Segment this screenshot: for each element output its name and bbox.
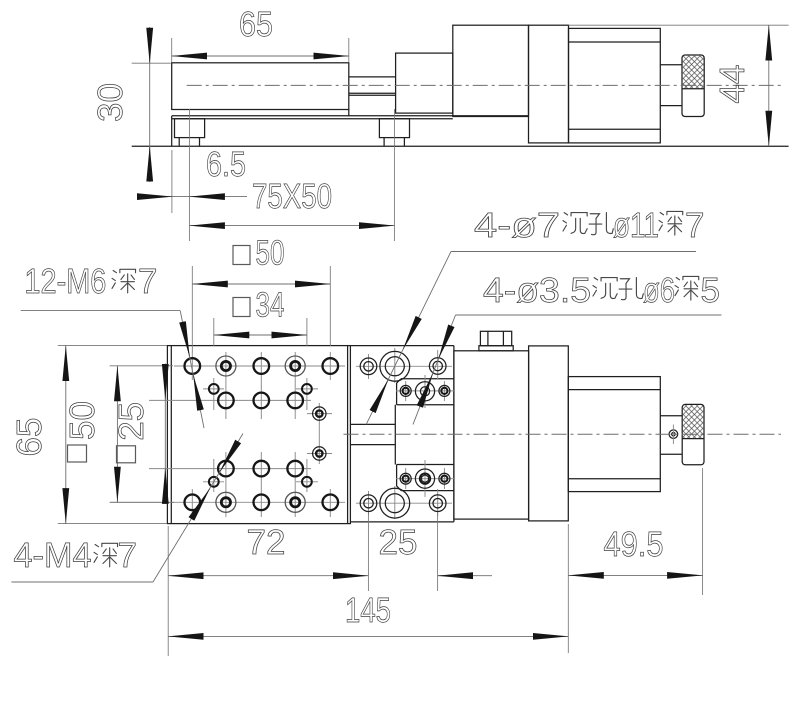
dim sq50 (plan) ext bottom <box>110 501 174 503</box>
label 12-M6 arrow a <box>183 322 190 356</box>
micrometer rod top line (side view) <box>349 76 396 78</box>
svg-text:7: 7 <box>118 536 137 575</box>
micrometer clamp (plan) <box>529 346 569 521</box>
lower screw strip <box>397 465 454 491</box>
dim 25 tail line <box>438 575 492 577</box>
dim sq50 (plan) text <box>63 401 102 462</box>
dim sq25 text <box>112 402 151 463</box>
svg-text:7: 7 <box>138 262 157 301</box>
counterbore o7/o11 hole upper <box>380 351 410 381</box>
svg-text:75X50: 75X50 <box>252 177 332 216</box>
dim sq34 ext right <box>306 318 308 346</box>
connector tab flange <box>479 346 513 351</box>
dim 145 line <box>168 635 568 637</box>
svg-text:44: 44 <box>713 65 752 104</box>
svg-text:50: 50 <box>256 234 285 273</box>
micrometer body lower line (plan) <box>568 478 660 480</box>
svg-text:65: 65 <box>239 5 273 44</box>
svg-text:25: 25 <box>379 523 418 562</box>
dim sq25 bottom arrow <box>164 468 166 503</box>
dim sq25 top arrow <box>164 365 166 400</box>
dim 6.5 extension a <box>171 150 173 213</box>
label 4-o7 underline <box>451 251 696 253</box>
label 4-o7 arrow b <box>373 380 388 411</box>
2x center screw holes <box>313 407 326 460</box>
micrometer spindle bottom (side view) <box>660 105 682 107</box>
dim sq34 line <box>214 334 307 336</box>
dim 6.5 left arrow <box>137 196 172 198</box>
dim 75X50 line <box>189 225 394 227</box>
knob knurl hatch (side view) <box>683 56 704 89</box>
dim sq34 ext left <box>213 318 215 346</box>
label 4-M4 arrow a <box>220 442 238 472</box>
dim 65 line <box>172 55 349 57</box>
bracket block (plan) <box>454 351 529 519</box>
counterbore o7/o11 hole lower <box>380 488 410 518</box>
micrometer spindle bottom (plan) <box>660 453 682 455</box>
label 12-M6 arrow b <box>193 375 200 409</box>
foot 2 body <box>379 119 409 138</box>
spindle shaft bottom (plan) <box>350 444 395 446</box>
dim 49.5 ext right <box>702 468 704 595</box>
micrometer spindle top (plan) <box>660 415 682 417</box>
svg-text:65: 65 <box>10 418 49 457</box>
svg-text:4-ø7: 4-ø7 <box>474 206 560 245</box>
knurled knob (side view) <box>682 55 704 117</box>
upper strip center hole <box>415 382 434 401</box>
dim 25 right arrow <box>438 575 473 577</box>
dim 44 top extension <box>569 24 789 26</box>
foot 2 centerline / 75X50 extension <box>393 109 395 241</box>
dim 30 bottom arrow <box>149 146 151 181</box>
connector tab outer <box>480 331 511 345</box>
dim sq50 (plan) line <box>116 366 118 502</box>
svg-text:50: 50 <box>63 401 102 440</box>
base plate bottom edge with 30/44 extension <box>132 145 789 147</box>
label 4-o3.5 arrow a <box>439 326 452 359</box>
knob knurl boundary (plan) <box>682 438 704 440</box>
micrometer body upper line (plan) <box>568 389 660 391</box>
connector tab inner line b <box>502 331 504 345</box>
carriage block right edge <box>453 346 455 522</box>
dim sq50 mid text <box>233 246 250 265</box>
dim 44 text <box>713 65 752 104</box>
platform right edge to base <box>348 110 350 117</box>
dim 65 extension left <box>171 38 173 62</box>
svg-text:ø11: ø11 <box>613 206 659 245</box>
svg-text:ø6: ø6 <box>643 271 675 310</box>
foot 1 body <box>175 119 205 138</box>
foot 2 left leg <box>383 138 385 147</box>
dim 30 top extension <box>132 62 171 64</box>
label 4-o3.5 arrow b <box>420 374 433 407</box>
knob knurl boundary (side view) <box>682 88 704 90</box>
table plate outline (plan) <box>167 346 350 524</box>
dim 72 ext left <box>167 526 169 656</box>
svg-text:4-ø3.5: 4-ø3.5 <box>483 271 591 310</box>
svg-text:49.5: 49.5 <box>604 525 664 564</box>
svg-text:7: 7 <box>685 206 704 245</box>
12x M6 tapped holes <box>185 358 339 510</box>
dim sq34 text <box>233 298 250 317</box>
4x counterbore o3.5/o6 holes <box>360 358 446 512</box>
dim 145 ext right <box>567 524 569 653</box>
svg-text:12-M6: 12-M6 <box>24 262 106 301</box>
svg-text:25: 25 <box>112 402 151 441</box>
label 4-o7 arrow a <box>403 318 418 349</box>
table plate right inner edge <box>347 346 349 524</box>
spindle end cap inner <box>672 433 675 436</box>
label 12-M6 underline <box>21 310 181 312</box>
dim sq50 mid ext left <box>191 266 193 352</box>
micrometer body lower line <box>569 128 661 130</box>
svg-text:4-M4: 4-M4 <box>14 536 92 575</box>
label 4-o3.5 underline <box>456 314 722 316</box>
dim sq25 line <box>164 364 166 505</box>
carriage block bottom edge <box>350 521 454 523</box>
dim sq50 (plan) ext top <box>110 365 173 367</box>
carriage mid edge <box>394 405 396 465</box>
svg-text:34: 34 <box>256 286 285 325</box>
dim sq50 mid line <box>192 283 330 285</box>
label 4-o3.5 leader line <box>413 315 456 424</box>
dim 65 (plan) ext bottom <box>58 523 167 525</box>
dim 25 ext right <box>437 512 439 591</box>
spindle shaft top (plan) <box>350 423 395 425</box>
base plate second edge line <box>172 118 453 120</box>
spindle end cap outer <box>669 430 678 439</box>
carriage block top edge <box>350 345 454 347</box>
dim sq50 mid ext right <box>329 266 331 346</box>
label 4-M4 underline <box>11 581 153 583</box>
stage moving platform (side view) <box>172 63 349 110</box>
micrometer clamp (side view) <box>529 25 569 143</box>
platform step line (side view) <box>349 94 396 96</box>
micrometer spindle top (side view) <box>660 64 682 66</box>
dim 65 (plan) ext top <box>58 345 167 347</box>
label 4-M4 leader line <box>153 434 243 583</box>
micrometer body (plan) <box>568 377 660 492</box>
micrometer body upper line <box>569 41 661 43</box>
drive block (side view) <box>396 53 453 113</box>
dim 44 line <box>768 25 770 146</box>
foot 1 left leg <box>178 138 180 147</box>
label 4-o7 leader line <box>366 252 451 425</box>
4x counterbored corner holes <box>216 356 305 512</box>
upper screw strip <box>397 379 454 405</box>
label 12-M6 leader line <box>180 311 204 428</box>
dim 49.5 line <box>568 574 702 576</box>
svg-text:5: 5 <box>701 271 720 310</box>
dim 6.5 right arrow <box>189 196 224 198</box>
4x strip screw holes <box>400 385 450 484</box>
svg-text:30: 30 <box>91 83 130 122</box>
knob knurl hatch (plan) <box>683 405 703 438</box>
connector tab inner line a <box>487 331 489 345</box>
dim 30 line <box>149 27 151 182</box>
dim 65 (plan) line <box>65 346 67 524</box>
base plate left edge <box>171 116 173 146</box>
4x M4 tapped holes <box>209 384 312 487</box>
dim 30 text <box>91 83 130 122</box>
center line (plan) <box>344 433 782 435</box>
svg-text:6.5: 6.5 <box>206 145 246 184</box>
foot 2 right leg <box>403 138 405 147</box>
dim 72 ext right <box>367 512 369 591</box>
micrometer body (side view) <box>569 28 661 142</box>
dim 72 line <box>168 575 368 577</box>
micrometer rod bottom line (side view) <box>349 92 396 94</box>
foot 1 centerline / 75X50 extension <box>188 109 190 241</box>
hole centerlines <box>110 348 673 519</box>
lower strip center hole with socket <box>415 469 434 488</box>
table plate left inner edge <box>170 346 172 524</box>
foot 1 right leg <box>199 138 201 147</box>
base plate top edge <box>172 115 529 117</box>
svg-text:145: 145 <box>345 591 391 630</box>
bracket block (side view) <box>453 25 529 116</box>
dim 65 (plan) text <box>10 418 49 457</box>
dim 6.5 line <box>137 196 247 198</box>
center line (side view) <box>187 84 781 86</box>
knurled knob (plan) <box>682 404 704 464</box>
svg-text:72: 72 <box>247 523 286 562</box>
dim 65 extension right <box>348 38 350 62</box>
dim 30 top arrow <box>149 28 151 63</box>
label 4-M4 arrow b <box>192 489 210 519</box>
